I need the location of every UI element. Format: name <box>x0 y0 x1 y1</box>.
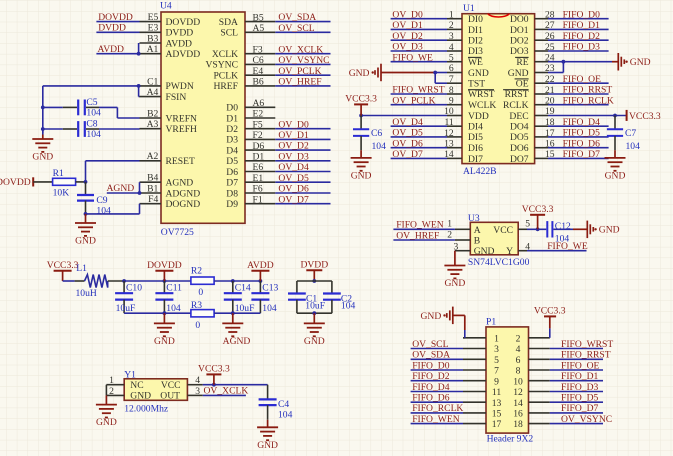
wire net FIFO_D7 (U1 right) <box>548 157 609 159</box>
Y1 pin 1 (NC) <box>106 375 124 386</box>
wire net FIFO_WE (U3 out) <box>527 250 587 252</box>
svg-text:OV_D6: OV_D6 <box>278 184 309 195</box>
wire net FIFO_WE (U1 left) <box>391 61 447 63</box>
svg-text:C5: C5 <box>86 97 97 108</box>
U4 pin A2 (RESET) <box>140 151 195 167</box>
svg-text:DI6: DI6 <box>468 143 483 154</box>
wire net FIFO_D3 (P1 right) <box>550 391 603 393</box>
wire net OV_SDA (P1 left) <box>411 358 463 360</box>
svg-text:A3: A3 <box>147 119 159 130</box>
svg-text:VDD: VDD <box>468 111 489 122</box>
svg-text:FIFO_RRST: FIFO_RRST <box>561 350 611 361</box>
svg-text:WCLK: WCLK <box>468 100 496 111</box>
power port VCC3.3 (P1) <box>534 306 566 317</box>
power port VCC3.3 <box>198 364 230 385</box>
wire C9 bottom to GND <box>85 214 87 223</box>
svg-text:FIFO_D2: FIFO_D2 <box>412 371 450 382</box>
svg-text:FIFO_WRST: FIFO_WRST <box>392 85 444 96</box>
svg-text:C12: C12 <box>555 221 571 232</box>
wire net FIFO_OE (P1 right) <box>550 369 603 371</box>
svg-text:15: 15 <box>492 409 502 420</box>
wire net FIFO_D5 (P1 right) <box>550 401 603 403</box>
wire C12 to GND <box>553 228 573 230</box>
power ground GND (U1 right) (bar style) <box>618 53 650 71</box>
wire net DOVDD to U4 E5 <box>96 21 139 23</box>
svg-text:OV_D6: OV_D6 <box>392 138 423 149</box>
capacitor C11 (104) <box>155 281 182 314</box>
capacitor C1 (10uF) <box>288 281 325 313</box>
svg-text:GND: GND <box>445 278 466 289</box>
wire net OV_D1 (U4 right) <box>275 138 330 140</box>
svg-text:FIFO_D4: FIFO_D4 <box>563 117 601 128</box>
svg-text:OV_D1: OV_D1 <box>392 20 423 31</box>
svg-text:FIFO_D5: FIFO_D5 <box>561 393 599 404</box>
svg-text:C10: C10 <box>126 283 142 294</box>
wire net OV_XCLK (Y1 out) <box>203 394 246 396</box>
wire U3 pin5 to VCC3.3 and C12 <box>527 228 546 230</box>
capacitor C4 (104) <box>259 399 293 421</box>
wire net OV_VSYNC (U4 right) <box>275 63 330 65</box>
svg-text:RE: RE <box>516 57 528 68</box>
svg-text:D6: D6 <box>253 141 265 152</box>
svg-text:DI4: DI4 <box>468 122 483 133</box>
svg-text:14: 14 <box>513 398 523 409</box>
wire net OV_D0 (U4 right) <box>275 128 330 130</box>
wire B4-B1 tie <box>139 182 141 193</box>
wire L1 to C10 node <box>108 280 124 282</box>
power ground GND (C12) (bar style) <box>587 221 619 239</box>
wire U1 pin24 to GND <box>548 61 612 63</box>
svg-text:DEC: DEC <box>509 111 528 122</box>
U1 pin 5 (WE) <box>447 53 483 69</box>
svg-text:1: 1 <box>494 333 499 344</box>
svg-text:F1: F1 <box>253 194 263 205</box>
svg-text:AGND: AGND <box>223 336 251 347</box>
svg-text:DOVDD: DOVDD <box>147 260 182 271</box>
U3 pin 3 (GND) <box>454 241 471 252</box>
svg-text:GND: GND <box>349 68 370 79</box>
wire C7 to GND <box>614 150 616 158</box>
svg-text:104: 104 <box>86 129 101 140</box>
junction node U1 pin24 <box>562 60 566 64</box>
wire net OV_D5 (U1 left) <box>391 136 447 138</box>
capacitor C10 (10uF) <box>115 281 142 314</box>
wire net FIFO_D2 (U1 right) <box>548 39 609 41</box>
U4 pin F1 (D9) <box>226 194 275 210</box>
power port DOVDD <box>147 260 182 281</box>
P1 pin 15 <box>463 409 502 420</box>
U4 pin E3 (DVDD) <box>140 23 194 39</box>
svg-text:GND: GND <box>154 336 175 347</box>
svg-text:E5: E5 <box>148 12 159 23</box>
svg-text:2: 2 <box>109 386 114 397</box>
wire net FIFO_D1 (U1 right) <box>548 28 609 30</box>
svg-text:B1: B1 <box>147 183 158 194</box>
svg-text:OV_VSYNC: OV_VSYNC <box>278 55 329 66</box>
svg-text:DOGND: DOGND <box>166 199 201 210</box>
svg-text:A1: A1 <box>147 44 159 55</box>
svg-text:OV_HREF: OV_HREF <box>396 230 439 241</box>
U4 pin E4 (PCLK) <box>213 66 275 82</box>
svg-text:DVDD: DVDD <box>300 259 328 270</box>
wire AGND stem <box>232 313 234 323</box>
svg-text:GND: GND <box>351 171 372 182</box>
svg-text:GND: GND <box>75 236 96 247</box>
op-amp U1 body (AL422B) <box>462 3 535 177</box>
wire net OV_HREF (U4 right) <box>275 85 330 87</box>
svg-text:OV_D4: OV_D4 <box>392 117 423 128</box>
wire net FIFO_D5 (U1 right) <box>548 136 609 138</box>
ground GND (C11) <box>96 259 613 451</box>
wire net OV_D3 (U4 right) <box>275 160 330 162</box>
svg-text:OV_D7: OV_D7 <box>278 194 309 205</box>
U1 pin 20 (RCLK) <box>503 96 555 112</box>
svg-text:9: 9 <box>449 96 454 107</box>
svg-text:AGND: AGND <box>166 178 194 189</box>
wire VCC3.3 to U1 pin10 <box>361 115 447 117</box>
svg-text:OV_D7: OV_D7 <box>392 149 423 160</box>
svg-text:Y: Y <box>506 246 513 257</box>
U3 pin 4 (Y) <box>518 241 530 252</box>
svg-text:FIFO_D0: FIFO_D0 <box>412 360 450 371</box>
P1 pin 6 <box>516 355 550 366</box>
svg-text:GND: GND <box>130 391 151 402</box>
svg-text:DI5: DI5 <box>468 132 483 143</box>
svg-text:B2: B2 <box>147 108 158 119</box>
svg-text:OV_D1: OV_D1 <box>278 130 309 141</box>
wire net FIFO_D0 (P1 left) <box>411 369 463 371</box>
svg-text:11: 11 <box>492 387 501 398</box>
svg-text:VSYNC: VSYNC <box>205 60 238 71</box>
wire net FIFO_RCLK (P1 left) <box>411 412 463 414</box>
svg-text:FIFO_D7: FIFO_D7 <box>563 149 601 160</box>
svg-text:GND: GND <box>257 440 278 451</box>
junction node Y1 VCC <box>212 383 216 387</box>
U1 pin 24 (RE) <box>515 53 555 69</box>
svg-text:R1: R1 <box>53 168 64 179</box>
wire AGND to U4 B1 <box>107 192 140 194</box>
svg-text:P1: P1 <box>486 316 496 327</box>
svg-text:F2: F2 <box>253 130 263 141</box>
U1 pin 6 (GND) <box>447 63 489 79</box>
capacitor C9 (104) <box>77 182 111 217</box>
junction node C14 top <box>231 279 235 283</box>
svg-text:OV_HREF: OV_HREF <box>278 77 321 88</box>
junction node U3 pin5 <box>536 227 540 231</box>
svg-text:OV_D5: OV_D5 <box>392 128 423 139</box>
svg-text:A6: A6 <box>253 98 265 109</box>
junction node C11 bottom <box>163 311 167 315</box>
svg-text:FIFO_D1: FIFO_D1 <box>563 20 601 31</box>
svg-text:D3: D3 <box>226 135 238 146</box>
power ground GND (U1 left) (bar style) <box>349 64 381 81</box>
svg-text:GND: GND <box>32 152 53 163</box>
U1 pin 21 (RRST) <box>503 85 555 100</box>
svg-text:FIFO_D6: FIFO_D6 <box>563 138 601 149</box>
Y1 pin 4 (VCC) <box>187 375 202 386</box>
U3 pin 5 (VCC) <box>518 219 530 230</box>
svg-text:1: 1 <box>109 375 114 386</box>
svg-text:A2: A2 <box>147 151 159 162</box>
U3 pin 2 (B) <box>447 229 470 240</box>
U1 pin 8 (WRST) <box>447 85 495 100</box>
svg-text:16: 16 <box>513 409 523 420</box>
svg-text:DVDD: DVDD <box>166 28 194 39</box>
U4 pin E2 (D1) <box>226 109 275 125</box>
svg-text:B4: B4 <box>147 173 158 184</box>
op-amp P1 body (Header 9X2) <box>486 316 533 444</box>
wire net OV_D4 (U1 left) <box>391 125 447 127</box>
junction node AGND at B1 <box>138 191 142 195</box>
capacitor C14 (10uF) <box>224 281 255 314</box>
U4 pin E5 (DOVDD) <box>140 12 201 28</box>
transistor Y1 body (oscillator 12.000Mhz) <box>124 369 187 414</box>
P1 pin 11 <box>463 387 501 398</box>
svg-text:OV_D0: OV_D0 <box>392 9 423 20</box>
svg-text:DO2: DO2 <box>510 36 529 47</box>
U1 pin 16 (DO6) <box>510 139 555 155</box>
wire net FIFO_D6 (U1 right) <box>548 147 609 149</box>
svg-text:D7: D7 <box>226 178 238 189</box>
svg-text:D8: D8 <box>226 188 238 199</box>
U1 pin 17 (DO5) <box>510 128 555 143</box>
U1 pin 10 (VDD) <box>444 106 489 122</box>
U4 pin E1 (D7) <box>226 173 275 189</box>
wire net AVDD to U4 A1 <box>96 53 139 55</box>
wire net FIFO_RRST (U1 right) <box>548 93 609 95</box>
U1 pin 26 (DO2) <box>510 31 555 47</box>
svg-text:OV_D3: OV_D3 <box>392 42 423 53</box>
svg-text:FIFO_D0: FIFO_D0 <box>563 9 601 20</box>
svg-text:GND: GND <box>96 417 117 428</box>
svg-text:FIFO_D3: FIFO_D3 <box>561 382 599 393</box>
Y1 pin 3 (OUT) <box>187 386 202 397</box>
wire net FIFO_D4 (U1 right) <box>548 125 609 127</box>
svg-text:2: 2 <box>516 333 521 344</box>
svg-text:A: A <box>474 225 481 236</box>
svg-text:FIFO_D1: FIFO_D1 <box>561 371 599 382</box>
wire net OV_SCL (P1 left) <box>411 348 463 350</box>
wire VCC row down to C4 <box>267 385 269 399</box>
junction node DVDD bottom <box>312 311 316 315</box>
svg-text:R2: R2 <box>191 266 202 277</box>
op-amp U3 body (SN74LVC1G00) <box>468 213 530 268</box>
svg-text:DO4: DO4 <box>510 122 529 133</box>
svg-text:FIFO_WE: FIFO_WE <box>392 52 433 63</box>
svg-text:A5: A5 <box>253 23 265 34</box>
svg-text:13: 13 <box>492 398 502 409</box>
IC notch arc (red) <box>488 14 510 17</box>
wire R1 to junction <box>76 181 86 183</box>
U4 pin F6 (D8) <box>226 184 275 200</box>
wire net OV_D6 (U1 left) <box>391 147 447 149</box>
wire R2 to AVDD node <box>214 280 260 282</box>
U4 pin A3 (VREFH) <box>140 119 198 135</box>
U1 pin 18 (DO4) <box>510 117 555 133</box>
wire net OV_D5 (U4 right) <box>275 181 330 183</box>
svg-text:DOVDD: DOVDD <box>0 177 31 188</box>
svg-text:WRST: WRST <box>468 89 495 100</box>
svg-text:3: 3 <box>195 386 200 397</box>
svg-text:GND: GND <box>468 68 489 79</box>
wire U1 pin24-pin23 tie <box>562 62 564 73</box>
svg-text:C14: C14 <box>235 283 251 294</box>
wire net OV_D7 (U1 left) <box>391 157 447 159</box>
svg-text:U1: U1 <box>463 3 475 14</box>
svg-text:4: 4 <box>516 344 521 355</box>
wire U3 pin3 to GND <box>454 251 456 266</box>
svg-text:2: 2 <box>449 20 454 31</box>
svg-text:104: 104 <box>626 141 641 152</box>
svg-text:Y1: Y1 <box>124 369 136 380</box>
U1 pin 27 (DO1) <box>510 20 555 36</box>
svg-text:C4: C4 <box>278 399 289 410</box>
wire DVDD bottom rail <box>297 312 332 314</box>
svg-text:9: 9 <box>494 376 499 387</box>
U1 pin 25 (DO3) <box>510 42 555 57</box>
svg-text:OV_PCLK: OV_PCLK <box>392 95 435 106</box>
junction node AVDD/C13 top <box>259 279 263 283</box>
svg-text:AVDD: AVDD <box>166 38 193 49</box>
svg-text:104: 104 <box>372 141 387 152</box>
wire junction up to U4 A2 (RESET) <box>85 161 87 182</box>
capacitor C13 (104) <box>251 281 278 314</box>
svg-text:NC: NC <box>130 380 143 391</box>
svg-text:17: 17 <box>492 419 502 430</box>
svg-text:D0: D0 <box>226 103 238 114</box>
U4 pin F2 (D3) <box>226 130 275 146</box>
svg-text:FIFO_RCLK: FIFO_RCLK <box>412 403 463 414</box>
svg-text:VCC: VCC <box>493 225 513 236</box>
svg-text:PWDN: PWDN <box>166 81 194 92</box>
svg-text:C9: C9 <box>96 195 107 206</box>
junction node at C1 pin <box>137 84 141 88</box>
resistor R1 (10K) <box>53 168 76 198</box>
svg-text:C7: C7 <box>625 128 636 139</box>
svg-text:RRST: RRST <box>505 89 529 100</box>
power port DVDD <box>300 259 328 281</box>
svg-text:1: 1 <box>449 10 454 21</box>
svg-text:C8: C8 <box>86 119 97 130</box>
wire GND to U1 pin6 <box>381 72 435 74</box>
svg-text:AVDD: AVDD <box>247 260 274 271</box>
junction node DVDD top <box>312 279 316 283</box>
svg-text:10K: 10K <box>53 187 70 198</box>
wire net OV_PCLK (U4 right) <box>275 74 330 76</box>
svg-text:FIFO_D3: FIFO_D3 <box>563 42 601 53</box>
wire net FIFO_OE (U1 right) <box>548 82 609 84</box>
svg-text:OV_SDA: OV_SDA <box>412 350 450 361</box>
wire C5 to U4 B2 <box>99 106 117 108</box>
svg-text:E6: E6 <box>253 162 264 173</box>
junction node C9 bottom <box>84 212 88 216</box>
P1 pin 13 <box>463 398 502 409</box>
wire net OV_PCLK (U1 left) <box>391 104 447 106</box>
svg-text:FIFO_RCLK: FIFO_RCLK <box>563 95 614 106</box>
U1 pin 7 (TST) <box>447 74 485 90</box>
svg-text:F4: F4 <box>148 194 158 205</box>
svg-text:F5: F5 <box>253 119 263 130</box>
U1 pin 12 (DI5) <box>444 128 483 143</box>
ground GND (C4) <box>257 306 613 451</box>
svg-text:WE: WE <box>468 57 483 68</box>
wire net OV_XCLK (U4 right) <box>275 53 330 55</box>
capacitor C6 (104) <box>353 116 386 152</box>
svg-text:OV7725: OV7725 <box>161 227 194 238</box>
svg-text:10uH: 10uH <box>76 288 97 299</box>
svg-text:OV_SCL: OV_SCL <box>278 23 314 34</box>
svg-text:GND: GND <box>599 225 620 236</box>
Y1 pin 2 (GND) <box>106 386 124 397</box>
svg-text:GND: GND <box>474 246 495 257</box>
P1 pin 12 <box>513 387 550 398</box>
wire net DVDD to U4 E3 <box>96 31 139 33</box>
wire net FIFO_D2 (P1 left) <box>411 380 463 382</box>
U1 pin 14 (DI7) <box>444 149 483 165</box>
svg-text:0: 0 <box>195 320 200 331</box>
junction node U1 pin19 <box>613 114 617 118</box>
svg-text:OV_D4: OV_D4 <box>278 162 309 173</box>
svg-text:XCLK: XCLK <box>212 49 238 60</box>
wire bottom rail C10-R3 <box>124 312 191 314</box>
U4 pin B1 (ADGND) <box>140 183 201 199</box>
P1 pin 10 <box>513 376 550 387</box>
svg-text:FIFO_D7: FIFO_D7 <box>561 403 599 414</box>
svg-text:GND: GND <box>421 311 442 322</box>
svg-text:GND: GND <box>605 171 626 182</box>
U4 pin C1 (PWDN) <box>140 76 194 92</box>
svg-text:E4: E4 <box>253 66 264 77</box>
svg-text:OV_D5: OV_D5 <box>278 173 309 184</box>
wire net OV_D4 (U4 right) <box>275 171 330 173</box>
svg-text:OV_D0: OV_D0 <box>278 119 309 130</box>
P1 pin 7 <box>463 366 499 377</box>
op-amp U4 body (OV7725) <box>160 1 245 238</box>
svg-text:OV_XCLK: OV_XCLK <box>278 44 323 55</box>
svg-text:E3: E3 <box>148 23 159 34</box>
svg-text:FSIN: FSIN <box>166 92 187 103</box>
wire DVDD top rail <box>297 280 332 282</box>
U4 pin A1 (ADVDD) <box>140 44 201 60</box>
svg-text:6: 6 <box>449 63 454 74</box>
svg-text:10uF: 10uF <box>235 303 255 314</box>
ground GND (C1/C2) <box>96 306 613 451</box>
svg-text:DO6: DO6 <box>510 143 529 154</box>
wire rail to GND stem <box>42 129 44 135</box>
svg-text:12: 12 <box>513 387 523 398</box>
svg-text:RCLK: RCLK <box>503 100 529 111</box>
power port AVDD <box>247 260 274 281</box>
svg-text:2: 2 <box>447 229 452 240</box>
junction node U1 pin10 <box>359 114 363 118</box>
svg-text:HREF: HREF <box>213 81 238 92</box>
svg-text:E2: E2 <box>253 109 264 120</box>
junction node U1 pin6 <box>433 71 437 75</box>
ground GND (C7) <box>47 158 626 451</box>
junction node AVDD at A1 <box>137 52 141 56</box>
svg-text:SCL: SCL <box>220 28 238 39</box>
svg-text:RESET: RESET <box>166 156 195 167</box>
wire net FIFO_RRST (P1 right) <box>550 358 603 360</box>
wire C8 to U4 A3 <box>99 128 140 130</box>
power port VCC3.3 <box>345 94 377 116</box>
P1 pin 3 <box>463 344 499 355</box>
svg-text:B5: B5 <box>253 12 264 23</box>
junction node RESET <box>84 180 88 184</box>
svg-text:DI2: DI2 <box>468 36 483 47</box>
junction node C5 rail <box>41 106 45 110</box>
P1 pin 4 <box>516 344 550 355</box>
